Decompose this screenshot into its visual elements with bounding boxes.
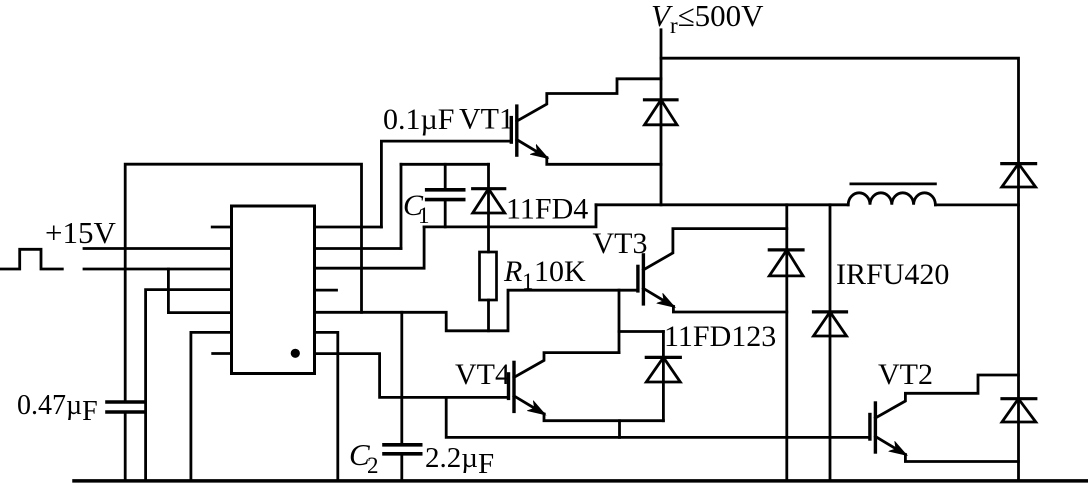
svg-text:VT1: VT1 xyxy=(459,103,514,136)
wire low rail to VT2 gate xyxy=(446,397,870,437)
svg-text:2: 2 xyxy=(367,453,379,478)
transistor VT3 gate bar xyxy=(636,266,639,291)
svg-text:+15V: +15V xyxy=(45,215,116,250)
svg-text:1: 1 xyxy=(418,203,430,228)
resistor R1 bottom lead xyxy=(487,300,490,331)
wire top rail xyxy=(661,58,1019,481)
transistor VT3 emitter xyxy=(643,288,673,306)
capacitor C2 bottom lead xyxy=(400,454,403,481)
diode D1 cathode bar xyxy=(645,98,678,101)
wire VT3-gate node vertical xyxy=(618,290,621,352)
wire C1 bottom node xyxy=(424,205,596,227)
transistor VT1 body bar xyxy=(515,106,518,155)
transistor VT2 gate bar xyxy=(868,415,871,440)
capacitor 0.47uF top plate xyxy=(107,400,144,404)
diode 11FD4 cathode bar xyxy=(473,187,505,190)
diode 11FD123 cathode bar xyxy=(646,356,680,359)
diode 11FD123 triangle xyxy=(646,357,680,382)
svg-text:VT2: VT2 xyxy=(878,358,933,391)
svg-text:10K: 10K xyxy=(534,255,586,288)
wire mid rail right of inductor xyxy=(935,203,1018,206)
transistor VT4 collector xyxy=(514,353,619,378)
transistor VT1 collector xyxy=(517,79,661,121)
resistor R1 xyxy=(480,252,497,300)
transistor VT1 gate bar xyxy=(510,118,513,143)
ground rail xyxy=(74,479,1088,483)
IC right pin wire y248.5 xyxy=(315,247,402,250)
svg-text:11FD4: 11FD4 xyxy=(506,193,588,226)
IC pin-1 dot xyxy=(291,349,300,358)
diode 11FD4 triangle xyxy=(473,189,505,213)
wire pulse input line xyxy=(84,268,232,271)
inductor L1 humps xyxy=(848,193,935,205)
pulse input waveform xyxy=(0,249,62,269)
capacitor C1 bottom plate xyxy=(427,198,464,202)
IC right pin wire y353.6 xyxy=(315,354,447,398)
svg-text:VT4: VT4 xyxy=(455,358,510,391)
wire VT4 emitter to gate rail xyxy=(618,421,621,438)
capacitor C1 top plate xyxy=(427,188,464,192)
IC left pin stub y227 xyxy=(212,226,231,229)
inductor L1 core bar xyxy=(851,182,936,185)
diode D4 triangle xyxy=(814,312,847,336)
svg-text:VT3: VT3 xyxy=(593,227,648,260)
transistor VT4 emitter wire xyxy=(544,414,663,421)
diode 11FD123 lead wire xyxy=(662,332,665,421)
transistor VT3 body bar xyxy=(642,255,645,304)
wire 0.1uF branch to VT1 gate xyxy=(381,141,511,227)
top-left rail xyxy=(125,164,361,402)
IC right pin wire y332.4 down to ground rail xyxy=(315,332,338,481)
IC right pin wire y227 to 0.1uF node xyxy=(315,226,382,229)
transistor VT1 emitter xyxy=(517,140,547,158)
diode 11FD4 lead and wire through xyxy=(487,164,490,252)
IC left pin wire y289.6 xyxy=(146,290,232,481)
wire mid rail xyxy=(596,203,848,206)
diode D2 cathode bar xyxy=(1002,162,1036,165)
transistor VT2 collector xyxy=(875,375,1018,418)
wire +15V left rail xyxy=(84,247,232,250)
IC right pin stub y290 xyxy=(315,289,337,292)
transistor VT4 gate lead xyxy=(446,396,508,399)
capacitor C1 top lead xyxy=(444,164,447,190)
diode D7 cathode bar xyxy=(1002,397,1036,400)
transistor VT4 gate bar xyxy=(507,374,510,399)
transistor VT3 emitter wire xyxy=(673,306,786,312)
diode D7 triangle xyxy=(1002,399,1036,422)
diode D4 cathode bar xyxy=(814,310,847,313)
diode D2 triangle xyxy=(1002,164,1036,187)
wire IRFU420 right vertical xyxy=(829,205,832,481)
wire Vr vertical xyxy=(660,30,663,205)
capacitor 0.47uF bottom plate xyxy=(107,410,144,414)
transistor VT2 body bar xyxy=(874,403,877,452)
svg-text:1: 1 xyxy=(522,269,534,294)
transistor VT3 collector xyxy=(643,229,786,270)
transistor VT4 body bar xyxy=(512,362,515,411)
IC right pin wire y268.2 xyxy=(315,227,425,268)
IC left pin wire y312.6 xyxy=(168,269,231,313)
capacitor C2 bottom plate xyxy=(384,452,421,456)
capacitor C1 bottom lead xyxy=(444,200,447,227)
wire to 11FD123 xyxy=(619,330,663,333)
svg-text:IRFU420: IRFU420 xyxy=(836,258,949,291)
capacitor C2 top lead xyxy=(400,312,403,445)
diode D1 triangle xyxy=(645,100,678,125)
IC right pin wire y312.3 xyxy=(315,290,638,331)
wire IRFU420 left vertical xyxy=(785,205,788,481)
svg-text:R: R xyxy=(503,255,522,288)
C1 frame left vertical xyxy=(400,164,403,248)
svg-text:Vr≤500V: Vr≤500V xyxy=(651,0,764,38)
transistor VT1 emitter wire xyxy=(547,158,661,165)
transistor VT2 emitter xyxy=(875,437,905,455)
capacitor C2 top plate xyxy=(384,443,421,447)
transistor VT4 emitter xyxy=(514,396,544,414)
IC U1 box xyxy=(232,206,315,374)
diode D3 triangle xyxy=(769,250,803,276)
capacitor 0.47uF bottom lead xyxy=(124,412,127,481)
IC left pin stub y353.5 xyxy=(213,352,232,355)
C1 frame top xyxy=(401,163,489,166)
IC left pin wire y332.4 xyxy=(191,332,232,481)
transistor VT2 emitter wire xyxy=(905,455,1018,462)
diode D3 cathode bar xyxy=(769,248,803,251)
svg-text:0.1µF: 0.1µF xyxy=(383,103,454,136)
svg-text:11FD123: 11FD123 xyxy=(664,320,776,353)
